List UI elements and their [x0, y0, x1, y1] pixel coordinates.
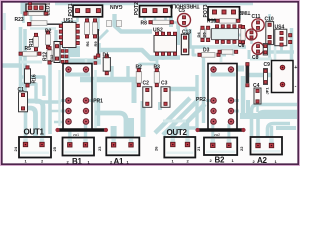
wire behind C6	[241, 30, 244, 44]
jumper JP1	[264, 69, 268, 85]
svg-text:24: 24	[13, 146, 18, 151]
relay PR1	[63, 64, 92, 131]
wire diagonal to R9	[98, 30, 108, 40]
svg-text:R16: R16	[31, 74, 37, 83]
svg-text:POT3: POT3	[203, 4, 209, 17]
svg-text:C12: C12	[49, 54, 54, 62]
board background	[0, 0, 300, 166]
wire US3 bottom bus	[205, 46, 242, 49]
svg-text:R12: R12	[43, 52, 49, 61]
svg-text:OUT1: OUT1	[24, 128, 45, 137]
wire OUT2 top band	[163, 120, 186, 123]
jumper stems under POT1	[107, 21, 122, 27]
wire POT2 pad stubs	[145, 13, 166, 24]
terminal A2	[251, 137, 283, 155]
capacitor C10	[266, 22, 274, 45]
resistor R8	[149, 20, 174, 24]
wire under C8	[250, 58, 272, 61]
svg-text:PR2: PR2	[196, 97, 206, 103]
wire band above relay PR1	[70, 59, 101, 65]
capacitor C4	[254, 88, 261, 104]
capacitor C2	[143, 87, 152, 108]
capacitor C6	[241, 25, 245, 44]
svg-text:25: 25	[52, 146, 57, 151]
wire nested left of relay PR1	[20, 77, 44, 96]
capacitor C9 box	[272, 61, 294, 93]
wire relay PR1 pad feeds	[50, 111, 62, 122]
resistor R10	[216, 19, 240, 23]
diode D6 dark	[246, 63, 250, 87]
wire band corner up	[246, 100, 250, 114]
wire link to D1	[97, 29, 100, 57]
svg-text:C11: C11	[252, 14, 261, 20]
relay PR2	[208, 64, 237, 131]
svg-text:US1: US1	[64, 18, 74, 24]
wire link W1	[55, 128, 108, 132]
svg-text:PR1: PR1	[93, 98, 103, 104]
IC US2	[154, 32, 177, 55]
wire A2 pad stub	[270, 126, 273, 143]
svg-text:POT2: POT2	[134, 2, 140, 15]
diode D1	[103, 55, 110, 75]
svg-text:zw1: zw1	[73, 133, 79, 137]
wire relay PR1 inside	[65, 73, 90, 77]
svg-text:23: 23	[97, 146, 102, 151]
svg-text:R11: R11	[29, 38, 35, 47]
svg-text:R23: R23	[15, 17, 24, 23]
capacitor C5	[178, 14, 191, 27]
wire US3 to C7	[236, 34, 247, 37]
svg-text:26: 26	[154, 146, 159, 151]
wire band at D6	[236, 66, 244, 72]
wire center bottom elbows	[95, 113, 126, 137]
wire left edge stub y65	[2, 63, 19, 68]
terminal OUT2	[164, 137, 195, 158]
wire C7 C8 stubs	[252, 39, 259, 58]
terminal B2	[204, 138, 237, 156]
wire right of relay PR1	[94, 70, 97, 128]
wire C1 column to OUT1	[24, 110, 28, 142]
wire left edge blob	[3, 13, 6, 30]
wire bus drop to A1	[132, 82, 137, 103]
terminal A1	[106, 138, 139, 156]
transistor TR1 pad grid	[61, 50, 68, 64]
svg-text:C4: C4	[253, 83, 260, 89]
resistor R16	[25, 66, 31, 87]
svg-text:B2: B2	[215, 156, 225, 165]
terminal OUT1	[19, 137, 51, 158]
wire D6 band down	[241, 76, 246, 114]
wire US1 left vertical	[61, 21, 68, 47]
svg-text:US4: US4	[275, 24, 285, 30]
capacitor C11	[252, 19, 264, 31]
wire POT2 down stub	[169, 16, 173, 27]
diode D3	[198, 53, 220, 58]
svg-text:-: -	[295, 84, 297, 90]
capacitor C7	[246, 29, 257, 40]
wire between C10 US4	[274, 30, 277, 60]
wire right wide horizontal	[240, 113, 297, 119]
jumper under LED1	[24, 12, 48, 16]
transistor TR2 pads	[94, 56, 97, 64]
wire C10 US4 stubs	[270, 44, 282, 58]
svg-text:R6: R6	[85, 41, 90, 47]
svg-text:GAIN: GAIN	[110, 3, 123, 9]
wire left mid segments	[20, 61, 42, 64]
wire R8 to US2 elbow	[174, 23, 178, 30]
svg-text:JP1: JP1	[265, 87, 270, 95]
svg-text:D2: D2	[45, 28, 52, 34]
svg-text:LED1: LED1	[46, 3, 52, 16]
border frame	[1, 1, 300, 166]
wire center column stubs	[99, 43, 128, 78]
potentiometer POT3	[208, 7, 240, 20]
wire right band y128	[276, 126, 296, 130]
svg-text:D4: D4	[196, 32, 201, 38]
wire POT3 right drop	[238, 9, 241, 19]
wire under R23 line	[30, 27, 56, 30]
svg-text:R8: R8	[141, 21, 148, 27]
resistor R5	[19, 52, 41, 56]
capacitor C14 box	[54, 42, 60, 63]
wire relay PR2 inside	[211, 73, 236, 77]
diode D2	[46, 31, 51, 49]
potentiometer POT1	[73, 5, 103, 17]
wire patch under US1	[68, 46, 80, 57]
svg-text:C3: C3	[161, 80, 168, 86]
wire relay PR1 top stub	[85, 58, 88, 64]
wire A1 pad feeds	[114, 118, 131, 143]
wire nested elbows bottom-left	[20, 101, 43, 136]
wire C3 to PR2 horizontal	[168, 87, 196, 92]
wire below US2 band	[150, 55, 180, 60]
svg-text:C2: C2	[143, 80, 150, 86]
resistor R11	[34, 33, 39, 51]
small part right upper	[263, 44, 267, 56]
wire D3 to R1	[218, 54, 226, 57]
wire to D3	[193, 47, 197, 55]
wire top edge light	[55, 2, 253, 5]
capacitor C8	[252, 43, 264, 55]
svg-text:zw2: zw2	[214, 133, 220, 137]
wire US2 to R2 R3	[140, 54, 164, 70]
svg-text:R3: R3	[154, 65, 161, 71]
wire diagonal bundle to OUT2	[155, 98, 205, 137]
resistor R3	[154, 69, 159, 87]
capacitor C1	[19, 92, 28, 112]
capacitor C3	[161, 87, 170, 108]
svg-text:22: 22	[239, 146, 244, 151]
svg-text:D3: D3	[203, 47, 210, 53]
wire right horizontal y52	[266, 50, 294, 54]
wire POT3 pad stubs	[215, 15, 235, 23]
wire threshold net	[190, 29, 246, 47]
wire B2 pad feeds	[213, 124, 229, 143]
wire y50 horizontal with chamfer	[99, 50, 156, 59]
diode D4	[200, 26, 204, 41]
svg-text:21: 21	[196, 146, 201, 151]
svg-text:D5: D5	[202, 32, 207, 38]
wire C5 stub	[185, 27, 188, 33]
resistor R1	[218, 50, 238, 54]
diode D5	[206, 26, 210, 41]
svg-text:OUT2: OUT2	[167, 128, 188, 137]
svg-text:C9: C9	[264, 62, 271, 68]
wire right nested elbows	[252, 105, 298, 138]
svg-text:TIME: TIME	[238, 9, 251, 15]
resistor R9	[93, 19, 98, 38]
wire C5 drop	[177, 26, 180, 45]
wire left column pair	[19, 27, 23, 101]
svg-text:C8: C8	[252, 55, 259, 61]
wire POT1 to US1	[66, 22, 99, 31]
wire US1 to relay PR1	[65, 46, 69, 64]
wire LED1 to R23	[24, 13, 32, 23]
IC US1	[59, 23, 79, 48]
wire GAIN net elbow	[115, 14, 153, 32]
wire OUT2 pad feeds	[173, 121, 197, 143]
wire POT1 pad stubs	[78, 13, 99, 31]
wire right top vertical	[290, 28, 294, 61]
stray pad top left	[29, 2, 32, 5]
svg-text:C10: C10	[265, 16, 274, 22]
svg-text:POT1: POT1	[68, 3, 74, 16]
svg-text:D1: D1	[103, 53, 110, 59]
resistor R12	[47, 47, 52, 65]
wire C10 top stub	[268, 14, 271, 21]
svg-text:C13: C13	[182, 29, 191, 35]
svg-text:C1: C1	[18, 87, 25, 93]
resistor R23	[28, 21, 70, 26]
potentiometer POT2	[140, 6, 172, 17]
terminal B1	[63, 138, 95, 156]
svg-text:+: +	[294, 65, 297, 71]
wire US3 to relay PR2	[220, 44, 223, 62]
wire link W2	[195, 128, 245, 132]
capacitor C13	[181, 34, 189, 55]
resistor R6	[85, 19, 90, 38]
wire left of relay PR1 light	[58, 70, 60, 126]
svg-text:US2: US2	[153, 28, 163, 34]
wire left of US1 vertical	[54, 30, 57, 48]
svg-text:R10: R10	[207, 18, 216, 24]
IC US3	[212, 25, 242, 44]
wire center bus	[80, 77, 137, 83]
wire B1 pad feeds	[70, 98, 99, 144]
svg-text:R9: R9	[93, 41, 98, 47]
wire left of relay PR2	[197, 58, 204, 128]
wire top-left stub	[21, 2, 26, 14]
svg-text:R2: R2	[136, 65, 143, 71]
IC US4	[275, 29, 292, 46]
svg-text:C6: C6	[238, 43, 245, 49]
wire behind PR1 label	[92, 80, 95, 100]
svg-text:C5: C5	[179, 8, 186, 14]
resistor R2	[136, 69, 141, 87]
wire jumper stub right	[256, 104, 259, 112]
wire C8 left drop	[248, 50, 251, 59]
LED LED1	[26, 4, 46, 11]
